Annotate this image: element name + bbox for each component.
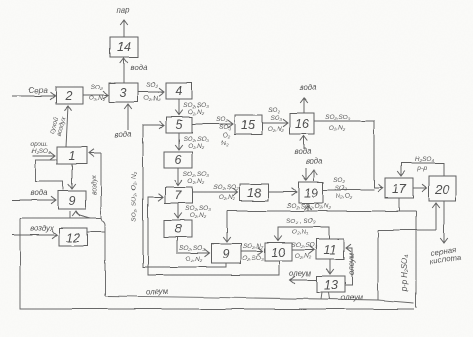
wire vapor out of 19 xyxy=(313,170,315,181)
svg-text:H₂SO₄: H₂SO₄ xyxy=(414,156,434,163)
box 3 xyxy=(109,83,138,102)
box 10 xyxy=(265,243,292,261)
svg-text:SO₂, SO₃, O₂, N₂: SO₂, SO₃, O₂, N₂ xyxy=(131,172,138,222)
wire 9 bottom taps xyxy=(69,211,71,218)
svg-text:SO₃: SO₃ xyxy=(270,115,282,122)
svg-text:вода: вода xyxy=(115,130,133,139)
wire 14-пар xyxy=(123,20,125,37)
svg-text:N₂: N₂ xyxy=(221,140,229,147)
wire 7-8 xyxy=(177,203,179,218)
svg-text:SO₂: SO₂ xyxy=(216,116,228,123)
svg-text:SO₂,SO₃: SO₂,SO₃ xyxy=(183,102,209,109)
wire 5-15 xyxy=(192,123,233,125)
svg-text:вода: вода xyxy=(131,63,149,72)
svg-text:7: 7 xyxy=(175,188,183,202)
wire 19-17 xyxy=(323,189,374,191)
wire 15-16 xyxy=(262,122,288,124)
svg-text:2: 2 xyxy=(65,89,73,103)
wire вода into 3 xyxy=(127,104,129,130)
box 15 xyxy=(235,115,262,134)
wire 16-17 xyxy=(314,121,383,188)
box 18 xyxy=(240,184,268,201)
wire 3-4 xyxy=(138,91,164,93)
wire oleum horizontal xyxy=(105,296,414,303)
svg-text:SO₂: SO₂ xyxy=(91,84,103,91)
wire hook to oleum line xyxy=(101,217,105,296)
svg-text:11: 11 xyxy=(324,243,337,257)
svg-text:олеум: олеум xyxy=(347,252,356,275)
svg-text:SO₂,SO₃: SO₂,SO₃ xyxy=(213,184,239,191)
svg-text:H₂SO₄: H₂SO₄ xyxy=(31,148,51,155)
box 17 xyxy=(385,178,413,198)
svg-text:O₂,N₂: O₂,N₂ xyxy=(188,178,205,185)
svg-text:олеум: олеум xyxy=(341,293,364,302)
wire bracket 11-10 xyxy=(278,227,329,241)
wire 8-9b xyxy=(177,237,209,253)
box 14 xyxy=(110,37,138,57)
wire 10-11 xyxy=(292,249,314,251)
wire return into 19 bottom xyxy=(307,205,309,211)
svg-text:O₂,N₂: O₂,N₂ xyxy=(268,126,285,133)
svg-text:4: 4 xyxy=(176,84,183,98)
svg-text:SO₂,SO₃: SO₂,SO₃ xyxy=(291,242,317,249)
wire 16 top вода xyxy=(303,98,305,113)
wire 12 to vertical xyxy=(87,231,105,233)
svg-text:O₂,N₂: O₂,N₂ xyxy=(295,253,312,260)
svg-text:15: 15 xyxy=(241,118,255,132)
wire 1-9 xyxy=(71,164,73,189)
svg-text:воздух: воздух xyxy=(30,224,55,233)
svg-text:O₂,N₂: O₂,N₂ xyxy=(219,194,236,201)
svg-text:16: 16 xyxy=(295,117,309,131)
wire 2-3 xyxy=(83,94,108,96)
wire return into 9b xyxy=(226,211,228,242)
wire y230 header xyxy=(378,229,436,231)
svg-text:воздух: воздух xyxy=(90,174,98,195)
svg-text:р-р H₂SO₄: р-р H₂SO₄ xyxy=(400,255,409,292)
wire орош into 1 xyxy=(32,155,55,157)
svg-text:вода: вода xyxy=(295,147,313,156)
svg-text:SO₃: SO₃ xyxy=(335,185,347,192)
svg-text:SO₃: SO₃ xyxy=(219,124,231,131)
wire 6-7 xyxy=(177,168,179,185)
svg-text:орош.: орош. xyxy=(30,141,48,148)
wire вода into 9 xyxy=(12,199,56,201)
svg-text:O₂,SO₃: O₂,SO₃ xyxy=(242,255,264,262)
svg-text:1: 1 xyxy=(69,149,76,163)
box 7 xyxy=(165,187,192,203)
svg-text:SO₂,SO₃: SO₂,SO₃ xyxy=(185,205,211,212)
wire 7-18 xyxy=(192,191,238,193)
wire воздух into 12 xyxy=(12,234,57,236)
svg-text:3: 3 xyxy=(120,86,127,100)
recycle 10-7 xyxy=(148,197,279,275)
svg-text:O₂,N₂: O₂,N₂ xyxy=(144,95,161,102)
box 19 xyxy=(299,182,323,203)
box 13 xyxy=(317,276,345,292)
box 12 xyxy=(59,228,87,246)
wire вода into 19 xyxy=(305,168,307,180)
wire 20-17 acid loop xyxy=(401,163,444,176)
svg-text:SO₂,SO₃: SO₂,SO₃ xyxy=(179,245,205,252)
svg-text:9: 9 xyxy=(69,194,76,208)
svg-text:олеум: олеум xyxy=(289,269,312,278)
svg-text:O₂,N₂: O₂,N₂ xyxy=(329,125,346,132)
wire under-9 header xyxy=(20,217,101,219)
svg-text:O₂,N₂: O₂,N₂ xyxy=(292,229,309,236)
svg-text:SO₂,SO₃,O₂,N₂: SO₂,SO₃,O₂,N₂ xyxy=(287,203,331,210)
box 8 xyxy=(164,220,192,237)
wire drain 1 to 9 xyxy=(35,160,63,190)
svg-text:8: 8 xyxy=(175,222,182,236)
recycle 9b-5 xyxy=(143,125,226,267)
svg-text:O₂,N₂: O₂,N₂ xyxy=(190,212,207,219)
svg-text:12: 12 xyxy=(66,231,80,245)
svg-text:N₂,O₂: N₂,O₂ xyxy=(336,193,353,200)
box 4 xyxy=(166,83,192,99)
wire Сера into 2 xyxy=(12,95,55,97)
svg-text:9: 9 xyxy=(223,247,230,261)
wire right vertical xyxy=(415,211,417,308)
svg-text:13: 13 xyxy=(324,278,338,292)
svg-text:O₂,N₂: O₂,N₂ xyxy=(186,256,203,263)
box 11 xyxy=(316,239,344,259)
box 9b xyxy=(211,244,241,263)
wire 3-14 вода xyxy=(123,58,125,83)
wire вода into 16 bottom xyxy=(303,136,305,149)
svg-text:O₂,N₂: O₂,N₂ xyxy=(188,109,205,116)
wire 17 bottom tee xyxy=(398,198,400,211)
svg-text:вода: вода xyxy=(306,157,324,166)
wire воздух into 1 right xyxy=(89,152,101,154)
wire bottom acid line xyxy=(20,218,414,309)
box 2 xyxy=(56,87,83,104)
box 1 xyxy=(57,147,87,164)
svg-text:SO₂ , SO₃: SO₂ , SO₃ xyxy=(286,218,316,225)
svg-text:O₂: O₂ xyxy=(223,132,231,139)
wire 17-20 xyxy=(413,187,427,189)
wire 4-5 xyxy=(178,99,180,115)
svg-text:олеум: олеум xyxy=(146,287,169,296)
svg-text:5: 5 xyxy=(176,118,183,132)
svg-text:14: 14 xyxy=(117,40,131,54)
svg-text:SO₂: SO₂ xyxy=(333,177,345,184)
wire long return line xyxy=(227,210,416,212)
svg-text:р-р: р-р xyxy=(416,165,427,172)
box 9 xyxy=(58,191,86,209)
svg-text:O₂,N₂: O₂,N₂ xyxy=(89,95,106,102)
wire 11-13 xyxy=(329,259,331,274)
svg-text:17: 17 xyxy=(392,182,407,196)
wire 9b-10 xyxy=(241,250,263,252)
svg-text:19: 19 xyxy=(304,186,318,200)
svg-text:O₂,N₂: O₂,N₂ xyxy=(188,143,205,150)
box 6 xyxy=(164,152,192,168)
svg-text:SO₂,SO₃: SO₂,SO₃ xyxy=(183,136,209,143)
wire into 20 bottom xyxy=(435,203,437,230)
svg-text:10: 10 xyxy=(271,246,285,260)
wire серная кислота out of 20 xyxy=(443,201,445,243)
box 20 xyxy=(429,176,456,201)
svg-text:пар: пар xyxy=(117,6,131,15)
svg-text:Сера: Сера xyxy=(29,86,48,95)
wire 13-11 oleum loop xyxy=(345,248,352,285)
wire 18-19 xyxy=(268,191,297,193)
box 16 xyxy=(290,113,314,134)
svg-text:SO₂,SO₃: SO₂,SO₃ xyxy=(183,171,209,178)
svg-text:SO₂,SO₃: SO₂,SO₃ xyxy=(325,114,351,121)
svg-text:SO₂: SO₂ xyxy=(146,82,158,89)
wire 378 vertical xyxy=(377,230,379,300)
svg-text:18: 18 xyxy=(247,186,261,200)
wire 5-6 xyxy=(178,133,180,150)
wire 13 bottom drain xyxy=(321,292,330,299)
wire vertical 12-1 xyxy=(100,153,102,217)
wire олеум out of 13 xyxy=(290,279,317,281)
svg-text:SO₂: SO₂ xyxy=(268,107,280,114)
box 5 xyxy=(166,117,192,133)
svg-text:20: 20 xyxy=(434,183,449,197)
svg-text:вода: вода xyxy=(31,188,49,197)
svg-text:6: 6 xyxy=(175,153,182,167)
svg-text:вода: вода xyxy=(300,83,318,92)
wire сухой воздух 1-2 xyxy=(66,106,68,147)
svg-text:SO₂,N₂: SO₂,N₂ xyxy=(243,243,264,250)
